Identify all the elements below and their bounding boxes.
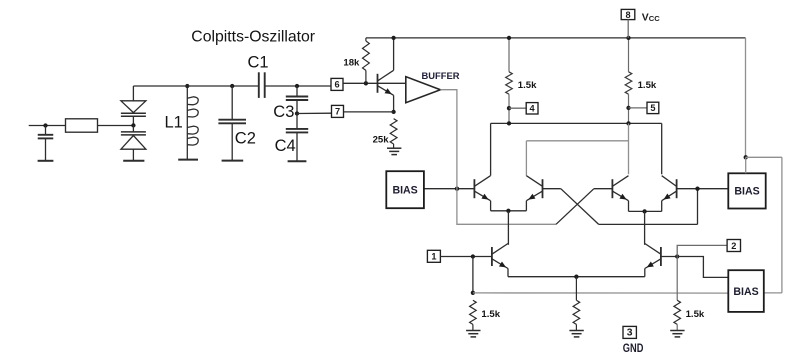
wire QB base stub xyxy=(543,188,561,190)
wire bus to QA collector xyxy=(490,123,492,175)
label 1.5k R7 xyxy=(686,309,705,320)
wire bottom rail to BIAS3 xyxy=(473,292,728,294)
wire QC emitter down xyxy=(628,201,630,212)
label 18k xyxy=(343,58,360,69)
node pin4 junction xyxy=(507,106,511,110)
ground 25k xyxy=(387,148,401,154)
svg-text:CC: CC xyxy=(649,14,660,23)
capacitor input bypass to ground xyxy=(38,126,54,161)
node bus R4 xyxy=(626,121,630,125)
wire collector bus xyxy=(491,122,662,124)
resistor R6 center xyxy=(573,277,580,331)
wire QE emitter down xyxy=(507,269,509,277)
varactor D2 bottom xyxy=(121,126,146,161)
ground varactor xyxy=(123,160,144,162)
resistor R5 1.5k bottom left xyxy=(470,300,477,330)
wire right pair emitter rail xyxy=(629,210,662,212)
svg-text:6: 6 xyxy=(334,80,339,90)
pin 8 xyxy=(621,9,635,19)
wire VCC rail xyxy=(366,37,746,39)
label C3 xyxy=(273,103,294,121)
wire rail to BIAS2 top xyxy=(745,157,747,173)
label GND xyxy=(623,342,644,355)
capacitor C3 xyxy=(286,86,308,114)
svg-text:BUFFER: BUFFER xyxy=(422,70,460,81)
wire cross up to QD base node xyxy=(697,189,699,225)
wire right rail down xyxy=(745,38,747,157)
svg-text:3: 3 xyxy=(627,328,633,339)
ground L1 xyxy=(178,159,198,161)
node R4 top pin8 junction xyxy=(626,36,630,40)
ground input capacitor xyxy=(38,160,54,162)
node pin5 junction xyxy=(626,106,630,110)
svg-text:C2: C2 xyxy=(235,129,256,147)
wire pin8 stub xyxy=(627,20,629,38)
wire far right to BIAS3 xyxy=(764,292,782,294)
wire bus to QD collector xyxy=(661,123,663,174)
wire gray cross net horizontal xyxy=(526,140,628,142)
wire cross diagonal left xyxy=(561,189,599,225)
label C2 xyxy=(235,129,256,147)
wire right pair to QF collector xyxy=(644,211,646,244)
svg-text:5: 5 xyxy=(650,103,655,113)
wire pin2 net xyxy=(677,245,727,256)
ground C4 xyxy=(288,160,307,162)
label 1.5k R3 xyxy=(518,80,537,91)
svg-text:2: 2 xyxy=(731,241,736,251)
ground R6 xyxy=(569,331,583,337)
op-amp U1 buffer xyxy=(406,77,441,103)
svg-text:18k: 18k xyxy=(343,58,360,69)
wire buffer output net xyxy=(440,90,556,225)
wire pin1 node down xyxy=(472,257,474,293)
wire gray cross net to QB collector xyxy=(525,141,527,176)
wire QD emitter down xyxy=(661,201,663,212)
pin 4 xyxy=(526,103,538,114)
pin 6 xyxy=(331,78,343,90)
transistor QB (left pair right) xyxy=(526,176,542,201)
svg-text:BIAS: BIAS xyxy=(734,186,759,198)
wire top rail left (varactor to C1) xyxy=(133,85,258,87)
label BUFFER xyxy=(422,70,460,81)
capacitor C1 (series) xyxy=(259,72,265,98)
wire rail to far right xyxy=(746,156,782,158)
resistor input series (box symbol) xyxy=(66,119,98,132)
node pin1 junction xyxy=(471,254,475,258)
pin 1 xyxy=(427,250,440,262)
wire QB emitter down xyxy=(525,201,527,211)
pin 7 xyxy=(332,105,344,117)
resistor 25k xyxy=(390,119,397,148)
node R3 top on rail xyxy=(507,36,511,40)
node left pair emitters xyxy=(506,209,510,213)
node right pair emitters xyxy=(642,209,646,213)
node emitter pin7 junction xyxy=(391,110,395,114)
svg-text:BIAS: BIAS xyxy=(733,286,758,298)
transistor QD (right pair right) xyxy=(662,176,677,201)
wire QD base to BIAS2 xyxy=(677,188,729,190)
transistor QE (lower left) xyxy=(492,244,508,269)
node C3-C4 junction xyxy=(295,111,299,115)
svg-text:C4: C4 xyxy=(275,137,296,155)
wire pin5 stub xyxy=(629,107,648,109)
op-amp BIAS1 box xyxy=(386,171,424,208)
wire gray cross net vertical from R4 node xyxy=(628,123,630,174)
resistor 18k xyxy=(363,38,370,83)
svg-text:25k: 25k xyxy=(373,135,390,146)
svg-text:BIAS: BIAS xyxy=(392,185,417,197)
label 1.5k R5 xyxy=(481,309,500,320)
svg-text:Colpitts-Oszillator: Colpitts-Oszillator xyxy=(191,28,315,45)
label 25k xyxy=(373,135,390,146)
wire QF emitter down xyxy=(644,269,646,277)
transistor QF (lower right) xyxy=(645,244,661,269)
label 1.5k R4 xyxy=(638,80,657,91)
transistor Q1 oscillator xyxy=(378,70,394,95)
node C3 top xyxy=(295,84,299,88)
wire cross diagonal right xyxy=(556,189,594,225)
node lower emitters xyxy=(574,275,578,279)
ground R7 xyxy=(670,331,684,337)
label C1 xyxy=(248,54,269,72)
wire QA emitter down xyxy=(490,201,492,211)
label L1 xyxy=(165,113,183,131)
wire pin2 node to BIAS3 xyxy=(677,257,728,278)
svg-text:C3: C3 xyxy=(273,103,294,121)
label C4 xyxy=(275,137,296,155)
node varactor center xyxy=(131,123,135,127)
svg-text:C1: C1 xyxy=(248,54,269,72)
svg-text:1.5k: 1.5k xyxy=(481,309,500,320)
wire left pair emitter rail xyxy=(491,210,527,212)
ground C2 xyxy=(222,160,244,162)
capacitor C4 xyxy=(286,114,308,162)
svg-text:GND: GND xyxy=(623,342,644,355)
wire BIAS1 to QA base xyxy=(424,188,474,190)
transistor QA (left pair left) xyxy=(474,176,490,201)
svg-text:1.5k: 1.5k xyxy=(686,309,705,320)
node bottom rail left xyxy=(471,291,475,295)
wire QC base stub xyxy=(594,188,613,190)
capacitor C2 xyxy=(218,86,246,161)
node right rail split xyxy=(744,155,748,159)
pin 5 xyxy=(647,102,659,113)
wire resistor to varactor node xyxy=(98,125,134,127)
node input junction xyxy=(43,123,47,127)
wire Q1 emitter down xyxy=(393,95,395,112)
node bus R3 xyxy=(507,121,511,125)
resistor R3 1.5k left xyxy=(506,38,513,124)
node Q1 collector on rail xyxy=(391,36,395,40)
pin 2 xyxy=(727,240,740,252)
svg-text:V: V xyxy=(642,12,649,23)
node C2 top xyxy=(230,84,234,88)
pin 3 xyxy=(623,326,636,338)
node QD base junction xyxy=(695,187,699,191)
wire Q1 collector to rail xyxy=(393,38,395,70)
transistor QC (right pair left) xyxy=(612,176,628,201)
wire cross right horizontal xyxy=(599,223,698,225)
op-amp BIAS2 box xyxy=(728,173,765,208)
svg-text:1.5k: 1.5k xyxy=(638,80,657,91)
wire C1 to pin 6 xyxy=(265,85,331,87)
wire pin1 to QE base xyxy=(440,256,492,258)
varactor D1 top xyxy=(121,86,146,126)
resistor R4 1.5k right xyxy=(625,38,632,124)
resistor R7 1.5k bottom right xyxy=(674,257,681,331)
label VCC xyxy=(642,12,660,23)
wire lower emitter rail xyxy=(508,276,645,278)
op-amp BIAS3 box xyxy=(728,270,764,312)
svg-text:4: 4 xyxy=(530,104,536,114)
ground R5 xyxy=(466,331,480,337)
wire pin 6 to base and buffer input xyxy=(343,82,406,84)
wire C3 node to pin 7 xyxy=(297,112,332,114)
svg-text:1.5k: 1.5k xyxy=(518,80,537,91)
wire left pair to QE collector xyxy=(507,211,509,245)
svg-text:7: 7 xyxy=(335,107,340,117)
wire far right rail down xyxy=(781,157,783,293)
title text Colpitts-Oszillator xyxy=(191,28,315,45)
node pin2 junction xyxy=(675,254,679,258)
inductor L1 xyxy=(187,86,198,160)
wire input left segment xyxy=(29,125,66,127)
svg-text:L1: L1 xyxy=(165,113,183,131)
svg-text:1: 1 xyxy=(431,252,436,262)
node L1 top xyxy=(185,84,189,88)
node buffer-base junction xyxy=(455,187,459,191)
wire QF base stub xyxy=(661,256,677,258)
svg-text:8: 8 xyxy=(625,10,630,20)
wire pin4 stub xyxy=(509,107,526,109)
node 18k-base junction xyxy=(364,81,368,85)
wire pin 7 to emitter node xyxy=(344,111,394,113)
